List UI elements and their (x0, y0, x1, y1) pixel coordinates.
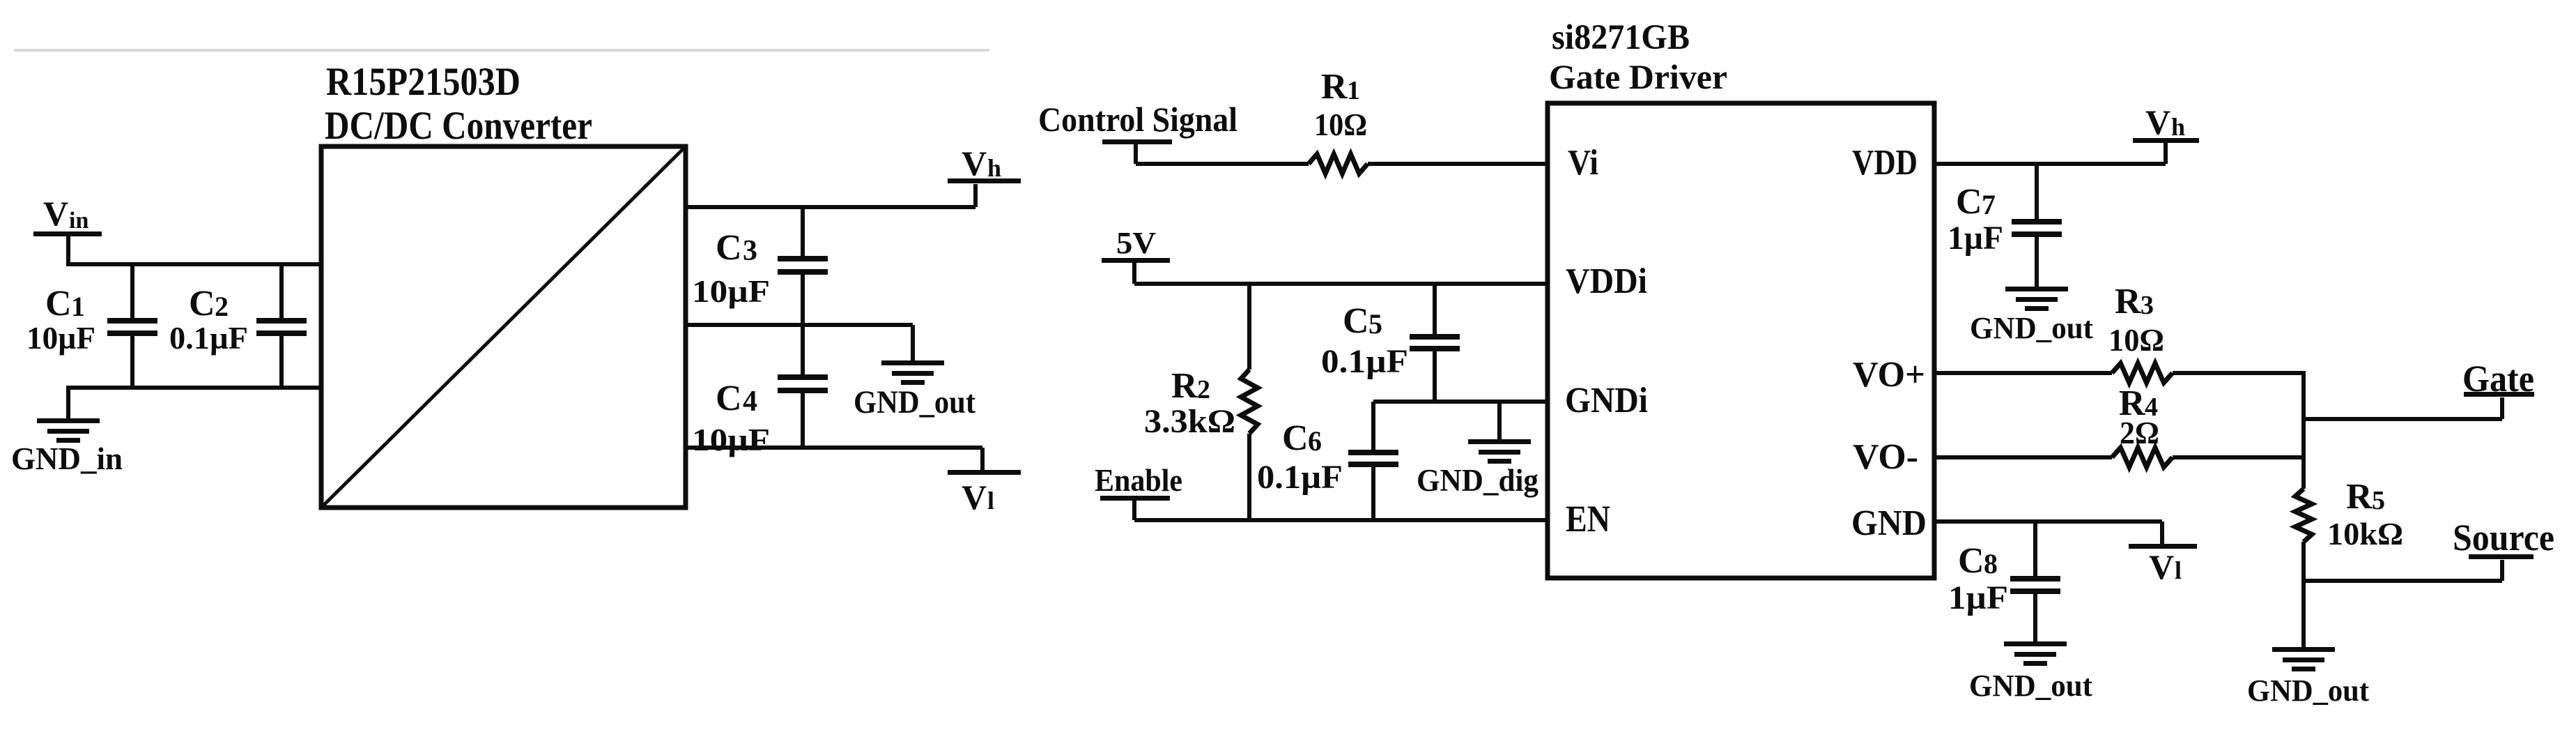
svg-text:DC/DC Converter: DC/DC Converter (325, 104, 592, 148)
svg-text:5V: 5V (1116, 226, 1156, 260)
svg-text:GND: GND (1851, 503, 1927, 543)
node Vl (2129, 522, 2197, 586)
svg-text:C: C (1956, 182, 1982, 222)
svg-text:Enable: Enable (1095, 462, 1182, 498)
svg-text:10µF: 10µF (692, 422, 770, 457)
wire (1134, 518, 1548, 522)
wire (1934, 371, 2112, 375)
pin GND (1851, 503, 1927, 543)
svg-text:Gate: Gate (2462, 358, 2534, 400)
pin Vi (1568, 143, 1598, 183)
svg-text:7: 7 (1982, 189, 1996, 220)
wire (1934, 162, 2166, 166)
wire (686, 323, 913, 327)
svg-text:0.1µF: 0.1µF (169, 320, 248, 356)
wire (1934, 519, 2162, 524)
svg-text:V: V (43, 194, 68, 233)
svg-text:C: C (45, 284, 72, 324)
wire (2304, 579, 2502, 583)
svg-text:VO-: VO- (1853, 437, 1918, 477)
svg-text:R15P21503D: R15P21503D (326, 60, 520, 104)
resistor R2 (1144, 284, 1258, 520)
svg-text:0.1µF: 0.1µF (1321, 343, 1408, 380)
svg-text:C: C (1282, 418, 1309, 458)
svg-text:10kΩ: 10kΩ (2327, 516, 2403, 552)
resistor R4 (2112, 383, 2173, 467)
svg-text:C: C (716, 379, 742, 418)
svg-text:Control Signal: Control Signal (1038, 100, 1237, 139)
svg-text:1µF: 1µF (1948, 579, 2008, 616)
wire (686, 205, 975, 209)
node Source (2453, 517, 2554, 581)
resistor R5 (2295, 477, 2403, 581)
svg-text:4: 4 (743, 386, 757, 418)
capacitor C6 (1257, 402, 1398, 520)
svg-text:R: R (2115, 282, 2142, 321)
svg-text:GND_out: GND_out (1969, 669, 2092, 703)
node Enable (1095, 462, 1182, 520)
svg-text:l: l (987, 487, 994, 515)
svg-text:3.3kΩ: 3.3kΩ (1144, 403, 1235, 440)
wire (2301, 581, 2306, 647)
node Gate (2462, 358, 2534, 419)
capacitor C5 (1321, 284, 1460, 402)
node Vh (948, 144, 1021, 207)
svg-text:8: 8 (1984, 548, 1998, 579)
ground GND_out (854, 325, 975, 420)
wire (1373, 400, 1548, 404)
svg-text:10µF: 10µF (692, 273, 770, 309)
node Control Signal (1038, 100, 1237, 164)
pin VO- (1853, 437, 1918, 477)
pin EN (1566, 498, 1610, 540)
ground GND_out (1970, 287, 2093, 345)
capacitor C7 (1948, 164, 2062, 287)
node Vh (2133, 102, 2199, 164)
svg-text:R: R (1171, 366, 1198, 406)
wire (2304, 417, 2502, 421)
svg-text:Gate Driver: Gate Driver (1549, 57, 1727, 96)
node Vl (948, 448, 1021, 517)
label U2 R15P21503D DC/DC Converter (325, 60, 592, 148)
capacitor C8 (1948, 522, 2060, 641)
ground GND_out (1969, 641, 2092, 703)
svg-text:2Ω: 2Ω (2120, 415, 2159, 450)
svg-text:C: C (189, 284, 215, 324)
label U1 si8271GB Gate Driver (1549, 18, 1727, 96)
svg-text:VDDi: VDDi (1566, 261, 1647, 301)
svg-text:l: l (2175, 556, 2182, 584)
svg-text:10Ω: 10Ω (2108, 322, 2164, 358)
svg-text:VO+: VO+ (1853, 355, 1925, 395)
pin VDD (1852, 143, 1918, 183)
svg-text:h: h (2171, 113, 2185, 141)
svg-text:6: 6 (1308, 425, 1322, 457)
svg-text:h: h (987, 154, 1001, 182)
pin GNDi (1565, 381, 1648, 420)
svg-text:GND_out: GND_out (2247, 674, 2369, 708)
svg-text:2: 2 (215, 291, 229, 322)
pin VDDi (1566, 261, 1647, 301)
wire (686, 446, 982, 450)
svg-text:R: R (1321, 67, 1348, 107)
svg-text:3: 3 (2141, 291, 2154, 320)
svg-text:GND_out: GND_out (1970, 311, 2093, 345)
svg-text:1: 1 (71, 291, 85, 322)
svg-text:si8271GB: si8271GB (1552, 18, 1690, 57)
wire (2173, 455, 2304, 459)
svg-text:R: R (2346, 477, 2373, 517)
svg-text:V: V (2145, 102, 2170, 142)
svg-text:C: C (716, 228, 742, 268)
IC U1 si8271GB (1548, 103, 1934, 578)
wire (1934, 455, 2112, 459)
node Vin (33, 194, 102, 264)
svg-text:GND_in: GND_in (11, 441, 123, 476)
svg-text:C: C (1343, 301, 1369, 341)
svg-text:GND_dig: GND_dig (1417, 463, 1538, 498)
svg-text:V: V (962, 144, 987, 183)
svg-text:2: 2 (1197, 375, 1210, 404)
ground GND_out (2247, 647, 2369, 708)
svg-text:Source: Source (2453, 517, 2554, 558)
wire (1136, 162, 1309, 166)
svg-text:Vi: Vi (1568, 143, 1598, 183)
svg-text:C: C (1958, 541, 1984, 581)
converter U2 R15P21503D (321, 146, 686, 508)
svg-text:GNDi: GNDi (1565, 381, 1648, 420)
capacitor C2 (169, 262, 307, 389)
resistor R3 (2108, 282, 2173, 383)
wire (1368, 162, 1548, 166)
svg-text:3: 3 (743, 235, 757, 267)
capacitor C3 (692, 207, 828, 325)
node 5V (1102, 226, 1170, 284)
capacitor C1 (26, 262, 157, 389)
wire (66, 386, 321, 390)
svg-text:in: in (69, 208, 88, 234)
svg-text:VDD: VDD (1852, 143, 1918, 183)
svg-text:V: V (962, 478, 987, 517)
svg-text:V: V (2149, 547, 2174, 586)
wire (2173, 371, 2304, 375)
svg-text:10Ω: 10Ω (1314, 107, 1367, 142)
svg-text:5: 5 (2372, 486, 2385, 515)
wire (66, 262, 321, 266)
wire (1134, 282, 1548, 286)
wire (2301, 371, 2306, 489)
svg-text:GND_out: GND_out (854, 384, 975, 420)
svg-text:1µF: 1µF (1948, 220, 2003, 257)
ground GND_dig (1417, 402, 1538, 498)
capacitor C4 (692, 325, 828, 457)
svg-text:5: 5 (1368, 308, 1382, 340)
resistor R1 (1309, 67, 1368, 174)
svg-text:0.1µF: 0.1µF (1257, 459, 1343, 496)
pin VO+ (1853, 355, 1925, 395)
svg-text:EN: EN (1566, 498, 1610, 540)
svg-text:1: 1 (1347, 76, 1360, 105)
svg-text:10µF: 10µF (26, 320, 95, 356)
ground GND_in (11, 388, 123, 476)
